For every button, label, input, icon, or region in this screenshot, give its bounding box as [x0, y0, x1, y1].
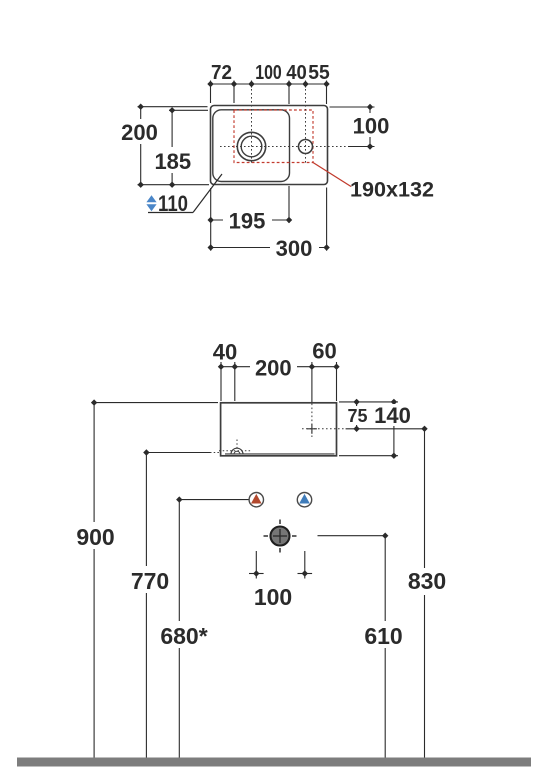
markers 200/185	[138, 104, 176, 188]
bottom extension 140	[339, 455, 398, 457]
markers 75 & 140 & 830 top	[353, 399, 427, 459]
svg-text:100: 100	[255, 62, 282, 84]
markers 300	[208, 244, 330, 250]
top dimension line	[211, 83, 327, 85]
dimension 200 vertical line	[140, 107, 142, 185]
basin plan outline	[211, 106, 328, 185]
label 100 right	[350, 113, 392, 139]
right 100 bottom extension	[348, 146, 375, 148]
right 100 top extension	[330, 106, 375, 108]
ext tap center front	[234, 362, 236, 401]
900 vertical line	[93, 403, 95, 758]
100 spacing tick left	[249, 573, 264, 575]
extension stub small hole	[305, 81, 307, 88]
right 100 vertical dimension line	[369, 107, 371, 147]
leader diagonal 110	[193, 174, 222, 213]
svg-text:40: 40	[286, 62, 307, 84]
diamond markers on top dimension line	[207, 81, 329, 87]
svg-text:60: 60	[312, 339, 336, 364]
marker 680	[176, 496, 182, 502]
label 195	[223, 208, 272, 234]
svg-text:680*: 680*	[160, 623, 207, 649]
marker 770	[143, 449, 149, 455]
front small hole center cross	[307, 424, 317, 434]
100 spacing tick right	[298, 573, 313, 575]
front small hole dotted vertical	[311, 404, 313, 438]
extension basin left down	[210, 188, 212, 251]
markers 195	[208, 217, 293, 223]
extension basin right down	[326, 188, 328, 251]
770 extension dotted tail	[210, 452, 220, 454]
red leader line	[313, 163, 351, 187]
svg-text:200: 200	[255, 356, 292, 381]
770 extension line	[146, 452, 210, 454]
hot water symbol	[249, 493, 263, 507]
770 vertical line	[145, 453, 147, 758]
dotted vertical centerline small hole	[305, 85, 307, 164]
front top dimension line	[221, 366, 337, 368]
front small hole dotted horizontal	[302, 428, 345, 430]
label 610	[361, 621, 407, 649]
label 680*	[155, 621, 213, 649]
610 vertical line	[384, 536, 386, 758]
floor bar	[17, 758, 531, 767]
extension line basin right edge	[326, 81, 328, 105]
680 extension line	[179, 499, 248, 501]
extension line bowl right	[288, 81, 290, 105]
marker 900	[91, 399, 97, 405]
dotted horizontal centerline	[220, 146, 348, 148]
svg-text:200: 200	[121, 120, 158, 145]
label 185	[149, 147, 196, 174]
label 75	[345, 406, 370, 426]
svg-text:900: 900	[76, 524, 114, 550]
markers front top dims	[218, 364, 340, 370]
markers 100 spacing	[253, 570, 308, 576]
label 900	[73, 522, 118, 550]
cold water symbol	[297, 493, 311, 507]
small hole circle	[299, 140, 313, 154]
830 vertical line	[424, 429, 426, 758]
label 830	[404, 568, 450, 595]
faucet hole inner circle	[241, 136, 262, 157]
extension line basin left edge	[210, 81, 212, 104]
red dashed rectangle 190x132	[234, 110, 313, 163]
right 75 extension top	[339, 401, 398, 403]
100 spacing left stub	[255, 551, 257, 579]
svg-text:100: 100	[254, 584, 292, 610]
basin front outline	[221, 403, 337, 456]
svg-text:75: 75	[347, 406, 367, 426]
leader underline 110	[148, 212, 193, 214]
markers right 100	[367, 104, 373, 150]
svg-text:195: 195	[229, 209, 266, 234]
svg-text:40: 40	[213, 340, 237, 365]
label 140	[372, 403, 414, 428]
dimension 185 vertical line	[171, 110, 173, 184]
dotted vertical centerline faucet	[251, 85, 253, 164]
hole center horizontal connector	[346, 428, 425, 430]
dimension 300 line	[211, 247, 327, 249]
svg-text:140: 140	[374, 403, 411, 428]
svg-text:55: 55	[308, 62, 330, 84]
label 770	[127, 566, 173, 594]
basin front rim line	[225, 453, 335, 455]
svg-text:300: 300	[276, 236, 313, 261]
label 200 front	[250, 355, 297, 381]
label 300	[270, 236, 319, 261]
svg-text:830: 830	[408, 568, 446, 594]
svg-text:770: 770	[131, 568, 169, 594]
svg-text:72: 72	[211, 62, 232, 84]
height adjust icon (blue triangles)	[146, 195, 156, 211]
marker 610	[382, 533, 388, 539]
extension stub faucet center	[251, 81, 253, 88]
drain right connector to 610	[318, 535, 386, 537]
extension line red rect left	[233, 81, 235, 104]
ext basin front left	[220, 362, 222, 401]
overflow dome outer arc	[231, 448, 243, 454]
svg-text:190x132: 190x132	[350, 179, 434, 202]
100 spacing right stub	[304, 551, 306, 579]
dimension 140 vertical line	[393, 402, 395, 456]
faucet hole outer circle	[237, 132, 265, 160]
overflow dome inner arc	[234, 451, 240, 454]
dimension 75 vertical line	[356, 402, 358, 429]
svg-text:100: 100	[353, 114, 390, 139]
dimension 200/185 bottom extension	[138, 184, 210, 186]
svg-text:610: 610	[364, 623, 402, 649]
900 extension line	[94, 402, 218, 404]
drain circle	[264, 520, 297, 553]
dimension 185 top extension	[169, 109, 208, 111]
label 200	[117, 119, 162, 145]
overflow dotted horizontal	[219, 450, 252, 452]
overflow dotted vertical	[236, 440, 238, 449]
680 vertical line	[178, 500, 180, 758]
svg-text:185: 185	[154, 149, 191, 174]
basin bowl inner outline	[213, 110, 290, 182]
dimension 195 line	[211, 219, 289, 221]
ext basin front right	[336, 362, 338, 401]
extension bowl right to 195	[288, 186, 290, 223]
ext small hole front	[311, 362, 313, 402]
dimension 200 top extension	[138, 106, 208, 108]
